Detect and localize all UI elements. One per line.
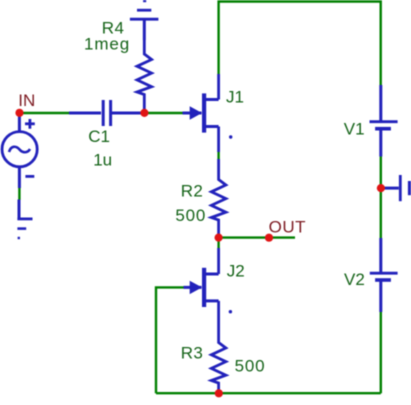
wire junction down to J2 drain: [217, 238, 219, 248]
resistor R3: [211, 326, 226, 393]
J1 source marker dot: [229, 135, 232, 138]
node junction dot bottom rail: [215, 389, 223, 397]
node junction dot R2/J2/OUT: [215, 234, 223, 242]
wire C1/R4 junction to J1 gate: [144, 112, 182, 114]
J2 source marker dot: [229, 310, 232, 313]
node junction dot V1/V2/V3: [377, 184, 385, 192]
svg-text:R2: R2: [181, 182, 204, 201]
node junction dot R4/C1/gate: [140, 109, 148, 117]
node IN dot: [15, 109, 23, 117]
svg-text:C1: C1: [88, 127, 110, 146]
transistor J2 (n-JFET): [184, 248, 219, 326]
battery V1: [370, 85, 398, 157]
svg-text:R3: R3: [181, 343, 204, 362]
wire top rail from J1 drain to V1 top: [219, 2, 381, 86]
svg-text:V2: V2: [344, 270, 365, 289]
svg-text:IN: IN: [18, 91, 35, 110]
AC source VIN circle: [2, 113, 37, 188]
wire IN node to C1 left lead: [19, 112, 69, 114]
ground top (above R4), inverted stair ground: [130, 1, 159, 40]
svg-text:500: 500: [235, 356, 266, 375]
svg-text:1u: 1u: [93, 150, 112, 169]
wire J1 source to R2 top: [217, 151, 219, 159]
plus sign of AC source: [25, 119, 35, 129]
svg-text:OUT: OUT: [269, 218, 306, 237]
wire bottom rail: [156, 392, 381, 394]
capacitor C1: [69, 100, 144, 126]
wire J2 gate feedback to bottom rail: [156, 287, 184, 393]
wire AC source bottom to ground: [18, 187, 20, 200]
transistor J1 (n-JFET): [183, 74, 219, 152]
node OUT dot: [265, 234, 273, 242]
minus sign of AC source: [25, 175, 34, 178]
wire V1 bottom to V2 top through node: [380, 156, 382, 239]
wire OUT stub from R2/J2 junction: [219, 236, 295, 238]
svg-text:V1: V1: [344, 119, 365, 138]
resistor R4: [137, 40, 152, 113]
ground bottom-left (below AC source): [17, 200, 32, 239]
svg-text:1meg: 1meg: [84, 35, 130, 54]
svg-text:500: 500: [175, 206, 206, 225]
battery V3 (right edge, clipped): [383, 175, 410, 201]
resistor R2: [211, 159, 226, 238]
wire V2 bottom to bottom rail: [380, 312, 382, 394]
battery V2: [370, 238, 398, 312]
svg-text:J2: J2: [227, 262, 245, 281]
svg-text:J1: J1: [226, 87, 244, 106]
